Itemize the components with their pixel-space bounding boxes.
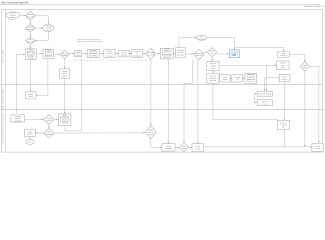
wire D8 right elbow to BB [310, 66, 320, 143]
wire D7 to blue task [217, 53, 229, 55]
pool border [2, 9, 323, 152]
wire C to D [115, 53, 118, 55]
decision D7 references? [208, 48, 217, 57]
wire Z feeder down [183, 83, 185, 143]
svg-text:to mgr: to mgr [46, 29, 51, 32]
wire I right long to O [219, 64, 276, 66]
svg-text:candidates: candidates [14, 119, 22, 122]
svg-text:status: status [28, 95, 33, 98]
header rule [0, 4, 321, 6]
wire K to L [230, 78, 232, 80]
svg-text:docs: docs [211, 67, 215, 70]
lane 1 label [1, 50, 4, 63]
svg-text:new need?: new need? [26, 15, 34, 18]
wire task1 down to lane2 [30, 59, 32, 91]
svg-text:done?: done? [303, 66, 308, 69]
wire start to decision D1 [20, 15, 26, 17]
svg-text:Vendor and Contractor Services: Vendor and Contractor Services Team [1, 113, 4, 144]
svg-text:date: date [281, 66, 284, 69]
task U sign contract [58, 113, 71, 125]
svg-text:manager: manager [280, 55, 287, 57]
task M onboard [245, 73, 257, 83]
task L create po [232, 75, 243, 82]
highlighted task H (selected, blue) [229, 50, 240, 59]
wire bracket to R2 [255, 102, 257, 104]
wire D6 to D7 [204, 51, 207, 53]
decision D5 candidate selected? [146, 48, 156, 59]
wire X left to V [36, 132, 44, 134]
svg-text:Phase 2: Discovery Work Progra: Phase 2: Discovery Work Program (AIM) [1, 1, 29, 4]
svg-text:agency: agency [27, 134, 33, 136]
wire V down to end [29, 137, 31, 140]
svg-text:candidate: candidate [163, 53, 171, 56]
wire L to M [243, 78, 245, 80]
svg-text:approval: approval [210, 79, 217, 82]
wire A to B [82, 53, 87, 55]
wire J bottom down right to CC [213, 83, 278, 120]
lane divider 2 [2, 109, 323, 111]
svg-text:request: request [45, 54, 52, 57]
wire S to T [24, 119, 43, 121]
svg-text:Updated 4/1/2009 v1.2: Updated 4/1/2009 v1.2 [304, 5, 325, 8]
task G negotiate [176, 48, 186, 58]
wire N right to D8 [290, 54, 306, 61]
lane 3 label [1, 113, 4, 144]
wire junction down to lane2 R1 [266, 65, 268, 91]
wire D4 down [64, 59, 65, 69]
lane divider 1 [2, 84, 323, 86]
wire P left elbow to lane2 [264, 78, 279, 91]
svg-text:docs: docs [63, 119, 67, 122]
event offer accepted [196, 35, 207, 40]
start sub-event [9, 17, 14, 19]
wire D6 elbow to Z feeder [184, 60, 193, 84]
svg-text:vendor: vendor [222, 78, 228, 81]
svg-text:contract?: contract? [61, 54, 68, 57]
task C collect resumes [104, 50, 115, 58]
svg-text:contract: contract [281, 78, 288, 81]
svg-text:to site: to site [91, 54, 96, 57]
svg-text:candidates: candidates [133, 54, 141, 57]
end event [26, 140, 34, 145]
wire X right to gateway [54, 132, 145, 134]
task define requirements [25, 48, 36, 59]
decision D8 work complete? [300, 62, 309, 71]
svg-text:terms?: terms? [46, 119, 51, 122]
svg-text:Discovery Team: Discovery Team [1, 50, 4, 63]
svg-text:received: received [106, 54, 112, 57]
task AA invoice monthly [192, 144, 203, 152]
wire D to E [129, 53, 131, 55]
task J route signature [207, 74, 219, 84]
wire P down to CC [284, 82, 286, 120]
task D screen [119, 50, 130, 57]
dashed phase boundary [75, 59, 154, 61]
start event [6, 12, 19, 20]
wire D8 down long [304, 71, 306, 147]
svg-text:approved?: approved? [26, 28, 34, 31]
wire resubmit down-left into D3 [35, 32, 48, 42]
decision D3 approved? [26, 37, 35, 44]
wire D2 down [30, 32, 32, 37]
event resubmit request [43, 24, 54, 32]
wire B to C [99, 53, 103, 55]
wire E to D5 [142, 53, 145, 55]
wire G top loop to ellipse [179, 37, 196, 48]
svg-text:Prepare: Prepare [45, 49, 52, 52]
task P extend contract [279, 74, 290, 81]
wire Z to AA [189, 147, 192, 149]
task V notify agency [25, 129, 36, 136]
svg-text:start date: start date [177, 54, 184, 57]
svg-text:confirmed?: confirmed? [45, 133, 53, 136]
svg-text:approved by HR before posting: approved by HR before posting [77, 40, 102, 43]
svg-text:project: project [148, 133, 154, 136]
task CC close out [278, 120, 290, 129]
task K setup vendor [220, 75, 231, 82]
svg-text:agency: agency [62, 75, 68, 77]
wire D3 down [30, 44, 32, 48]
wire D4 to task A [69, 53, 74, 55]
wire D6 down long to AA [197, 60, 199, 144]
wire D5 down long to lane3 gateway [150, 59, 152, 126]
svg-text:scope: scope [28, 54, 33, 57]
svg-text:check ok?: check ok? [195, 54, 203, 57]
wire AA right long to BB [203, 146, 311, 148]
annotation note text [77, 38, 102, 43]
svg-text:selected: selected [163, 56, 170, 59]
wire D1 down [30, 20, 32, 24]
decision Z approved? [179, 143, 189, 152]
task R1 review timesheet [257, 91, 272, 96]
wire U bottom elbow [65, 126, 82, 131]
wire T to U [54, 119, 58, 121]
wire F down to lane3 Y [167, 59, 169, 143]
task I prepare contract [207, 61, 219, 70]
wire G to D6 [185, 53, 193, 55]
decision X start confirmed? [44, 128, 55, 137]
wire I to J [212, 71, 214, 74]
wire D1 yes right elbow [35, 16, 49, 25]
lane label column divider [4, 9, 6, 152]
wire F to G [173, 53, 175, 55]
svg-text:file: file [282, 126, 284, 129]
wire bracket to R1 [255, 93, 257, 103]
svg-text:of work: of work [28, 56, 34, 59]
svg-text:approval?: approval? [27, 40, 34, 43]
svg-text:Make: Make [164, 48, 169, 51]
rounded task N [277, 52, 290, 58]
task engage agency [60, 69, 70, 78]
wire task1 to task2 [36, 53, 43, 55]
task F make offer [160, 48, 173, 59]
wire vertical from lane1 to elbow [81, 58, 83, 131]
task B post position [87, 49, 99, 58]
lane 2 label [1, 89, 4, 111]
wire T down to X [48, 124, 50, 128]
svg-text:ok?: ok? [211, 52, 214, 55]
wire agency down to lane3 [64, 78, 65, 113]
svg-text:selected?: selected? [147, 53, 154, 56]
decision T accept? [44, 115, 55, 124]
task R2 approve invoice [257, 100, 272, 106]
task O confirm start [277, 61, 289, 70]
task update status [25, 92, 36, 99]
wire D5 to F [156, 53, 160, 55]
wire task2 to D4 [54, 53, 60, 55]
gateway GX begin work [145, 126, 156, 139]
svg-text:Define: Define [28, 48, 33, 51]
svg-text:Onboard: Onboard [247, 73, 254, 76]
wire CC down to bottom line [284, 130, 286, 147]
decision D4 temp or contract? [60, 50, 69, 58]
svg-text:Sign: Sign [63, 113, 67, 116]
title text [1, 1, 29, 4]
svg-text:resumes: resumes [121, 54, 128, 56]
wire ellipse right elbow down to blue task [207, 38, 236, 50]
task prepare work request [43, 49, 54, 59]
header date text [304, 5, 325, 8]
svg-text:oved?: oved? [182, 147, 187, 150]
svg-text:Project Management Office: Project Management Office [1, 89, 4, 111]
decision D1 new need? [26, 11, 35, 20]
wire Y to Z [175, 147, 179, 149]
svg-text:Post the: Post the [90, 49, 97, 52]
svg-text:returned: returned [61, 121, 68, 124]
decision D6 background check? [194, 49, 205, 60]
wire D7 down to task I [211, 57, 213, 61]
wire task2 down-left to lane2 task [36, 59, 48, 96]
wire GX down right to Y [151, 139, 162, 149]
svg-text:resource: resource [247, 78, 254, 81]
task BB end archive [312, 143, 323, 151]
task A submit request [74, 51, 81, 57]
task Y submit timesheets [162, 144, 175, 151]
task S provide candidates [11, 115, 25, 123]
wire top line into N [235, 48, 285, 52]
task E interview [132, 50, 143, 58]
decision D2 funding? [25, 25, 35, 32]
wire D2 to resume ellipse [35, 27, 42, 29]
wire loopback from lane3 into task [17, 53, 25, 113]
